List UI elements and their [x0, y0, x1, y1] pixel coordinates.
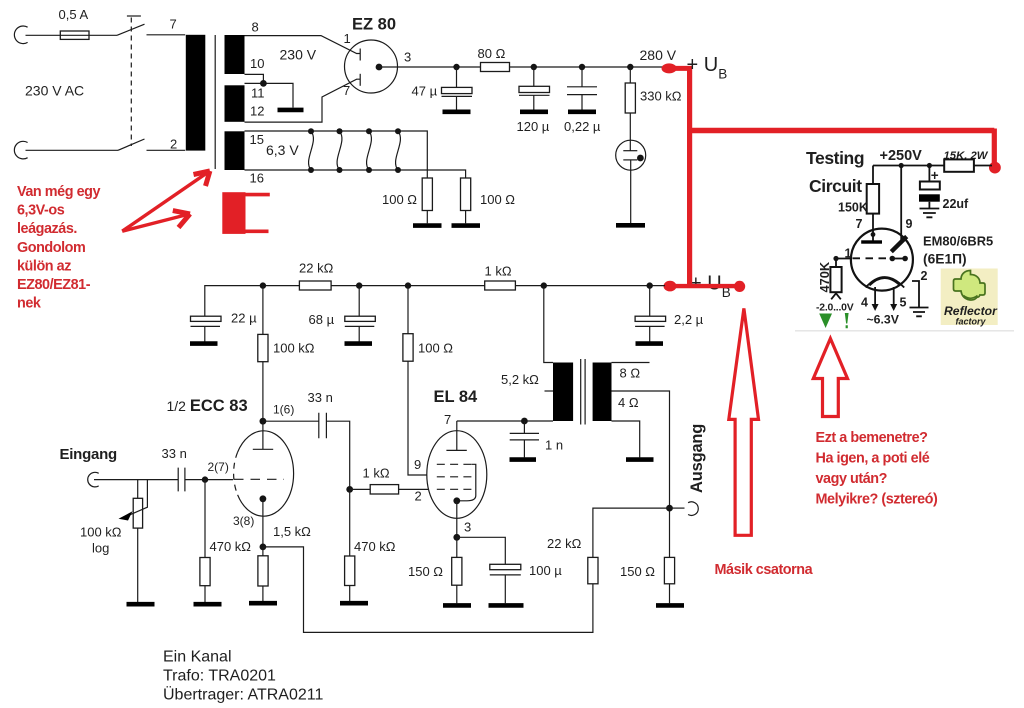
ground: C9: [489, 603, 524, 608]
wire: feedback return to ECC83 cathode: [263, 547, 593, 633]
svg-text:4 Ω: 4 Ω: [618, 395, 639, 410]
red arrow short to winding: [122, 214, 189, 231]
EL84 grid g1 dashes: [437, 488, 472, 490]
resistor 150K: [867, 184, 879, 214]
node: junction 100k / ECC83 anode feed: [260, 282, 266, 288]
node: 22uf junction: [927, 163, 932, 168]
ground: HV center tap: [278, 108, 304, 113]
resistor R hum 100 Ohm left: [422, 178, 432, 211]
ground: C10: [510, 457, 537, 462]
fuse F1 0,5A: [60, 31, 89, 39]
red wire: UB vertical feed: [687, 66, 692, 286]
ground: C6: [636, 341, 664, 346]
ground: R11: [443, 603, 471, 608]
svg-text:+250V: +250V: [880, 148, 923, 164]
node: cathode junction: [260, 544, 267, 551]
EL84 g3 to cathode link: [460, 464, 476, 501]
green exclamation mark: [845, 313, 849, 328]
resistor 15K 2W: [944, 159, 974, 171]
svg-text:Übertrager: ATRA0211: Übertrager: ATRA0211: [163, 685, 323, 703]
output jack prong: [688, 502, 698, 516]
svg-text:1 n: 1 n: [545, 438, 563, 453]
resistor R13 22k feedback: [588, 557, 598, 583]
resistor R10 470k EL84 grid leak: [345, 556, 355, 586]
resistor R3 22k: [299, 281, 331, 290]
resistor R5 1k: [485, 281, 516, 290]
wire: resistor to ground: [465, 211, 467, 224]
wire: input lead: [94, 479, 178, 481]
EL84 grid g2 dashes: [437, 476, 472, 478]
svg-text:Gondolom: Gondolom: [17, 240, 85, 256]
EZ80 plate 1 electrode: [359, 49, 361, 61]
svg-text:5: 5: [900, 296, 907, 310]
svg-text:Ezt a bemenetre?: Ezt a bemenetre?: [816, 430, 928, 446]
svg-text:0,22 µ: 0,22 µ: [564, 119, 601, 134]
node: 330k junction: [627, 64, 633, 70]
wire: pin 1 to 470K: [836, 259, 851, 268]
wire: output junction to feedback resistor: [593, 508, 670, 557]
Reflector logo background: [941, 269, 998, 326]
wire: terminal 10 to center tap junction: [245, 74, 264, 83]
red extra 6,3V winding bar: [222, 192, 245, 234]
Reflector logo tube glyph: [954, 271, 986, 301]
node: heater dot: [337, 128, 343, 134]
resistor R hum 100 Ohm right: [461, 178, 471, 211]
capacitor C5 68u plate: [345, 316, 376, 321]
wire: pot top connection: [137, 480, 139, 499]
resistor R11 150 Ohm cathode: [452, 557, 462, 585]
wire: junction to cap to ground: [523, 421, 525, 457]
heater filament EZ80 wavy: [309, 131, 314, 170]
transformer secondary winding bar (11-12): [225, 85, 245, 122]
EM80 deflector dot right: [902, 256, 908, 262]
wire: resistor to ground: [204, 586, 206, 602]
wire: coupling cap to grid stopper junction: [326, 421, 349, 489]
heater filament wavy 4: [396, 131, 401, 170]
output transformer core lines: [581, 359, 585, 425]
svg-text:120 µ: 120 µ: [517, 119, 550, 134]
EM80 target slant bar: [891, 237, 906, 252]
triode ECC83 envelope dashed arc: [234, 452, 238, 495]
wire: grid junction to grid leak resistor: [204, 480, 206, 558]
wire: anode junction to coupling cap: [263, 420, 319, 422]
green level triangle: [819, 314, 832, 329]
wire: junction to cap and cap to ground: [581, 67, 583, 110]
svg-text:vagy után?: vagy után?: [816, 471, 887, 487]
EM80 plate bar: [861, 240, 882, 243]
node: 0,22u junction: [579, 64, 585, 70]
wire: cathode down to junction: [456, 501, 458, 538]
svg-text:10: 10: [250, 56, 264, 71]
svg-text:22 kΩ: 22 kΩ: [547, 536, 582, 551]
glow lamp bottom electrode: [623, 159, 637, 161]
wire: 100k to anode junction: [262, 362, 264, 422]
capacitor C4 22u lower plate: [191, 325, 221, 327]
ground: heater right: [452, 223, 481, 228]
svg-text:12: 12: [250, 104, 264, 119]
input jack prong: [88, 472, 99, 487]
svg-text:33 n: 33 n: [162, 446, 187, 461]
glow lamp top electrode: [623, 150, 637, 152]
Reflector logo inner detail: [964, 296, 978, 299]
svg-text:2: 2: [170, 137, 177, 152]
node: output junction: [666, 505, 673, 512]
EM80 grid dashed line: [853, 257, 889, 259]
wire: rail junction to 100k: [262, 286, 264, 335]
svg-text:1,5 kΩ: 1,5 kΩ: [273, 524, 311, 539]
wire: bottom mains lead: [26, 149, 119, 151]
wire: terminal 12 to EZ80 plate pin 7: [245, 79, 361, 122]
svg-text:Másik csatorna: Másik csatorna: [715, 562, 814, 578]
switch S1b blade: [118, 139, 145, 150]
heater filament wavy 3: [367, 131, 372, 170]
wire: top mains lead to fuse: [26, 34, 61, 36]
svg-text:80 Ω: 80 Ω: [478, 46, 506, 61]
svg-text:(6Е1П): (6Е1П): [923, 252, 967, 267]
node: center tap junction: [260, 80, 267, 87]
node: anode / primary junction: [521, 418, 528, 425]
svg-text:EM80/6BR5: EM80/6BR5: [923, 234, 993, 249]
svg-text:6,3V-os: 6,3V-os: [17, 203, 65, 219]
capacitor C10 1n plates: [510, 433, 539, 440]
red arrow up channel outline: [729, 308, 759, 535]
wire: filtered B+ middle rail: [205, 286, 665, 317]
resistor R1 80 Ohm: [481, 63, 510, 72]
svg-text:9: 9: [414, 457, 421, 472]
svg-text:0,5 A: 0,5 A: [59, 7, 89, 22]
svg-text:7: 7: [343, 83, 350, 98]
node: red dot UB right: [734, 281, 745, 292]
wire: cap to ground: [204, 326, 206, 341]
wire: junction to cap and cap to ground: [533, 67, 535, 110]
svg-text:9: 9: [906, 217, 913, 231]
mains plug bottom prong: [14, 141, 27, 159]
EM80 pin 7 dot: [871, 232, 876, 237]
trimmer wiper arrow: [831, 293, 841, 299]
svg-text:68 µ: 68 µ: [309, 312, 335, 327]
wire: junction to resistor and to ground: [262, 547, 264, 601]
wire: junction to resistor: [629, 67, 631, 83]
wire: secondary bottom to ground: [612, 421, 640, 457]
svg-text:47 µ: 47 µ: [412, 84, 438, 99]
trimmer 470K body: [830, 267, 841, 292]
resistor R7 100k anode load: [258, 334, 268, 361]
switch link dashed line: [130, 18, 132, 147]
EL84 grid g3 dashes: [437, 463, 472, 465]
wire: rail down to 150K: [872, 166, 874, 185]
potentiometer wiper arrowhead: [119, 511, 133, 520]
red wire: UB distribution bar: [668, 284, 740, 288]
resistor R4 100 Ohm: [403, 334, 413, 362]
heater pin 5 arrowhead: [890, 304, 897, 311]
svg-text:Van még egy: Van még egy: [17, 184, 100, 200]
ground: R12: [656, 603, 684, 608]
wire: heater rail terminal 16: [245, 170, 466, 178]
svg-text:230 V AC: 230 V AC: [25, 83, 84, 99]
node: junction 2,2u: [647, 282, 653, 288]
ground: 22uf IEC: [920, 209, 940, 218]
node: heater dot: [366, 167, 372, 173]
capacitor C1 47u lower plate: [442, 95, 473, 97]
red extra winding top lead: [246, 193, 270, 197]
red arrow long to core: [122, 171, 209, 231]
svg-text:15: 15: [250, 132, 264, 147]
EM80 heater lead pin 5: [893, 287, 895, 306]
node: heater dot: [395, 128, 401, 134]
svg-text:Ha igen, a poti elé: Ha igen, a poti elé: [816, 450, 930, 466]
ground: C4: [190, 341, 218, 346]
red wire: 280V node stub: [670, 66, 692, 71]
wire: pot bottom to ground: [137, 528, 139, 602]
svg-text:230 V: 230 V: [280, 47, 317, 63]
heater filament wavy 2: [337, 131, 342, 170]
ground: R8: [249, 601, 277, 606]
svg-text:1 kΩ: 1 kΩ: [485, 264, 512, 279]
wire: secondary 8 Ohm tap: [612, 362, 650, 364]
node: 280V red node oval: [662, 63, 677, 73]
switch S1a blade: [117, 24, 145, 35]
node: heater dot: [395, 167, 401, 173]
ground: glow lamp: [616, 223, 645, 228]
capacitor C3 0,22u plates: [567, 87, 597, 95]
svg-text:Ausgang: Ausgang: [688, 424, 706, 493]
ground: secondary: [626, 457, 654, 462]
svg-text:5,2 kΩ: 5,2 kΩ: [501, 372, 539, 387]
EZ80 cathode pin 3 dot: [376, 64, 383, 71]
svg-text:7: 7: [856, 217, 863, 231]
resistor R6 470k grid leak: [200, 558, 210, 586]
transformer core line: [214, 35, 216, 169]
wire: junction to cap and cap to ground: [456, 67, 458, 110]
red arrow long head: [194, 171, 210, 186]
testing circuit inset edge: [795, 330, 1014, 332]
svg-text:8: 8: [252, 20, 259, 35]
capacitor C4 22u plate: [191, 316, 222, 321]
svg-text:külön az: külön az: [17, 258, 71, 274]
svg-text:2(7): 2(7): [208, 460, 229, 474]
svg-text:280 V: 280 V: [640, 47, 677, 63]
ground: C1: [443, 110, 471, 115]
wire: output junction to jack: [670, 507, 685, 509]
output transformer primary bar: [553, 363, 573, 422]
wire: screen feed from 100 Ohm: [408, 361, 427, 475]
svg-text:22 kΩ: 22 kΩ: [299, 261, 334, 276]
mains plug top prong: [14, 26, 27, 44]
node: heater dot: [308, 128, 314, 134]
EM80 plate electrode pin 7: [872, 235, 874, 241]
pentode EL84 envelope: [427, 431, 487, 519]
EM80 fluorescent screen bold arc: [870, 278, 901, 286]
node: +250V junction: [899, 163, 904, 168]
red wire: testing circuit drop: [993, 129, 995, 166]
wire: 150K to pin 7: [872, 214, 874, 236]
node: grid junction 2(7): [202, 476, 208, 482]
svg-text:100 µ: 100 µ: [529, 563, 562, 578]
wire: junction down to 470k: [349, 489, 351, 556]
ground: R10: [340, 601, 368, 606]
svg-text:3: 3: [464, 520, 471, 535]
capacitor C7 33n input plates: [178, 468, 185, 492]
svg-text:leágazás.: leágazás.: [17, 221, 77, 237]
wire: cap to ground: [504, 575, 506, 603]
resistor R9 1k grid stopper: [370, 485, 398, 494]
capacitor C6 2,2u plate: [635, 316, 666, 321]
potentiometer wiper wire: [128, 480, 148, 516]
transformer secondary 6,3V winding bar (15-16): [225, 131, 245, 170]
output transformer secondary bar: [593, 363, 612, 422]
wire: cathode down to junction: [262, 499, 264, 547]
svg-text:2: 2: [415, 489, 422, 504]
node: 47u junction: [453, 64, 459, 70]
ground: R6: [194, 602, 222, 607]
svg-text:2: 2: [921, 269, 928, 283]
svg-text:100 Ω: 100 Ω: [418, 341, 453, 356]
ECC83 grid dashed line: [234, 478, 284, 480]
svg-text:11: 11: [251, 86, 265, 101]
wire: switch to transformer pin 2: [147, 149, 186, 151]
svg-text:3(8): 3(8): [233, 514, 254, 528]
svg-text:log: log: [92, 541, 109, 556]
wire: resistor to ground: [669, 584, 671, 603]
node: anode junction 1(6): [260, 418, 267, 425]
wire: switch to transformer pin 7: [147, 34, 186, 36]
node: junction output transformer feed: [541, 282, 547, 288]
capacitor C8 33n coupling plates: [319, 413, 327, 438]
svg-text:-2.0...0V: -2.0...0V: [816, 303, 854, 314]
EM80 fluorescent screen outer arc: [866, 277, 905, 288]
node: red dot at testing circuit input: [989, 162, 1001, 174]
node: 120u junction: [531, 64, 537, 70]
svg-text:22 µ: 22 µ: [231, 311, 257, 326]
red wire: branch to testing circuit: [687, 128, 994, 133]
wire: 22uf junction and to ground: [928, 166, 930, 209]
svg-text:Testing: Testing: [806, 148, 864, 168]
node: heater dot: [366, 128, 372, 134]
glow lamp indicator envelope: [616, 140, 646, 170]
resistor R2 330k: [625, 83, 635, 113]
svg-text:1 kΩ: 1 kΩ: [363, 466, 390, 481]
wire: heater rail terminal 15: [245, 131, 428, 178]
capacitor C2 120u plate: [519, 86, 550, 92]
svg-text:470 kΩ: 470 kΩ: [210, 539, 252, 554]
capacitor 22uf top plate: [920, 182, 940, 190]
svg-text:3: 3: [404, 50, 411, 65]
svg-text:100 kΩ: 100 kΩ: [273, 341, 315, 356]
ground: potentiometer: [127, 602, 155, 607]
node: cathode junction pin 3: [453, 534, 460, 541]
op: EZ 80 rectifier tube envelope: [345, 40, 398, 93]
wire: resistor to EL84 grid: [399, 488, 429, 490]
node: EL84 grid junction: [346, 486, 353, 493]
svg-text:100 kΩ: 100 kΩ: [80, 525, 122, 540]
ECC83 cathode dot: [260, 495, 267, 502]
svg-text:6,3 V: 6,3 V: [266, 142, 299, 158]
wire: junction to resistor and ground: [456, 537, 458, 603]
ground: C2: [520, 110, 548, 115]
capacitor C9 100u lower plate: [490, 574, 521, 576]
wire: terminal 11 to center tap junction and ground: [245, 83, 294, 107]
wire: junction to resistor: [407, 286, 409, 334]
svg-text:2,2 µ: 2,2 µ: [674, 312, 704, 327]
potentiometer P1 100k log body: [133, 498, 142, 528]
transformer secondary 230V winding bar (8-10): [225, 35, 245, 74]
capacitor 22uf bottom plate: [919, 194, 940, 201]
glow lamp dot: [637, 155, 644, 162]
EZ80 plate 7 electrode: [359, 74, 361, 86]
node: pin 1 junction dot: [833, 256, 838, 261]
heater pin 4 arrowhead: [872, 304, 879, 311]
svg-text:1: 1: [344, 31, 351, 46]
wire: secondary 4 Ohm tap to output: [612, 391, 670, 557]
svg-text:EZ 80: EZ 80: [352, 16, 396, 34]
wire: pin 2 to ground: [912, 281, 919, 308]
ground: C5: [345, 341, 373, 346]
svg-text:150K: 150K: [838, 201, 868, 215]
wire: B+ junction down to output transformer primary: [544, 286, 553, 363]
wire: terminal 8 to EZ80 plate pin 1: [245, 36, 361, 54]
svg-text:150 Ω: 150 Ω: [408, 564, 443, 579]
capacitor C1 47u plate: [442, 87, 473, 93]
wire: cathode junction to bypass cap: [457, 537, 506, 564]
svg-text:nek: nek: [17, 296, 42, 312]
wire: resistor to ground: [426, 211, 428, 224]
transformer TR1 primary winding bar: [186, 35, 206, 151]
ground: pin 2 IEC: [910, 308, 929, 317]
svg-text:Melyikre? (sztereó): Melyikre? (sztereó): [816, 491, 938, 507]
capacitor C2 120u lower plate: [519, 94, 550, 96]
capacitor C6 2,2u lower plate: [635, 325, 665, 327]
svg-text:1(6): 1(6): [273, 403, 294, 417]
wire: 15K to red dot: [974, 165, 992, 167]
red extra winding bottom lead: [246, 230, 269, 234]
ECC83 anode electrode: [253, 421, 273, 449]
svg-text:Trafo: TRA0201: Trafo: TRA0201: [163, 667, 276, 684]
svg-text:1/2 ECC 83: 1/2 ECC 83: [167, 397, 248, 415]
capacitor C5 68u lower plate: [345, 325, 375, 327]
switch link T bar: [127, 15, 141, 17]
wire: B+ top rail from cathode to 280V node: [379, 66, 663, 68]
label 5,2 kOhm pointer: [545, 390, 554, 392]
wire: resistor to ground: [349, 586, 351, 602]
wire: resistor to glow lamp: [629, 113, 631, 151]
ground: heater left: [413, 223, 442, 228]
red arrow up to testing input outline: [813, 339, 847, 417]
svg-text:EL 84: EL 84: [434, 388, 479, 406]
wire: testing +250V rail: [873, 165, 944, 167]
svg-text:100 Ω: 100 Ω: [382, 192, 417, 207]
EM80 deflector segment: [892, 258, 905, 260]
wire: junction to resistor: [350, 488, 371, 490]
node: junction 68u: [356, 282, 362, 288]
svg-text:~6.3V: ~6.3V: [867, 313, 900, 327]
triode ECC83 envelope solid arc: [238, 431, 294, 516]
EM80 deflector dot left: [890, 256, 896, 262]
wire: glow lamp to ground: [630, 160, 632, 223]
svg-text:33 n: 33 n: [308, 390, 333, 405]
svg-text:factory: factory: [956, 317, 987, 327]
svg-text:4: 4: [861, 296, 868, 310]
resistor R8 1,5k cathode: [258, 556, 268, 586]
node: heater dot: [308, 167, 314, 173]
wire: junction to cap to ground: [649, 286, 651, 342]
svg-text:22uf: 22uf: [943, 197, 970, 211]
red arrow short head: [173, 211, 190, 228]
svg-text:8 Ω: 8 Ω: [620, 366, 641, 381]
ground: C3: [568, 110, 596, 115]
svg-text:470 kΩ: 470 kΩ: [354, 539, 396, 554]
node: heater dot: [337, 167, 343, 173]
svg-text:Eingang: Eingang: [60, 446, 118, 463]
